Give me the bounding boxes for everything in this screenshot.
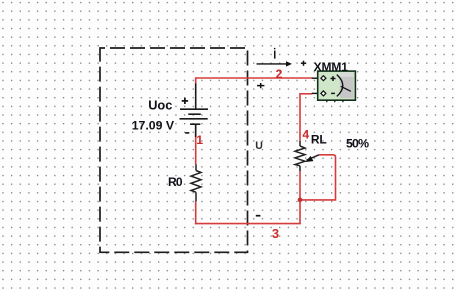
wiper arrowhead — [305, 156, 313, 162]
svg-text:R0: R0 — [168, 175, 183, 189]
wire: battery - down to R0 (node 1) — [195, 124, 197, 164]
pin stub top — [312, 77, 321, 79]
plus after arrow — [301, 61, 306, 66]
wire: top horizontal node 2 — [195, 77, 312, 79]
svg-text:3: 3 — [272, 226, 279, 241]
svg-text:XMM1: XMM1 — [314, 60, 349, 74]
resistor R0 — [191, 164, 201, 201]
bottom ticks — [327, 100, 343, 102]
body — [318, 71, 356, 100]
wire: battery + up to top corner — [195, 78, 197, 84]
meter arc — [337, 75, 343, 97]
label i — [274, 48, 276, 59]
wire: RL bottom to bottom rail — [299, 171, 301, 223]
svg-text:4: 4 — [302, 127, 309, 141]
multimeter XMM1 — [312, 71, 356, 102]
battery polarity - — [185, 132, 189, 134]
current arrow i — [257, 63, 287, 65]
plus mark — [331, 76, 336, 81]
label U plus — [257, 83, 264, 88]
svg-text:50%: 50% — [346, 137, 369, 151]
svg-text:1: 1 — [196, 133, 203, 147]
pin diamond bottom — [321, 91, 326, 96]
pin diamond top — [321, 76, 326, 81]
wiper line — [307, 155, 320, 160]
wire: bottom rail node 3 — [195, 223, 301, 225]
svg-text:RL: RL — [311, 133, 327, 147]
potentiometer RL — [295, 141, 319, 172]
svg-text:2: 2 — [276, 67, 283, 81]
display panel top strip — [340, 73, 354, 77]
svg-text:17.09 V: 17.09 V — [132, 119, 175, 133]
meter needle — [341, 86, 351, 91]
voltage source battery Uoc — [180, 83, 209, 137]
wire: multimeter bottom pin horizontal — [300, 93, 312, 95]
svg-text:U: U — [255, 140, 263, 152]
junction node on RL bottom — [298, 198, 303, 203]
svg-text:Uoc: Uoc — [148, 98, 172, 113]
minus mark — [331, 92, 335, 94]
display panel — [340, 73, 354, 98]
pin stub bottom — [312, 92, 321, 94]
wire: node 4 vertical to RL top — [299, 93, 301, 141]
dashed boundary box — [100, 48, 248, 252]
battery polarity + — [182, 98, 188, 104]
wire: R0 bottom to bottom rail — [195, 202, 197, 225]
label U minus — [256, 215, 261, 217]
wire: wiper loop right and down — [302, 155, 336, 200]
